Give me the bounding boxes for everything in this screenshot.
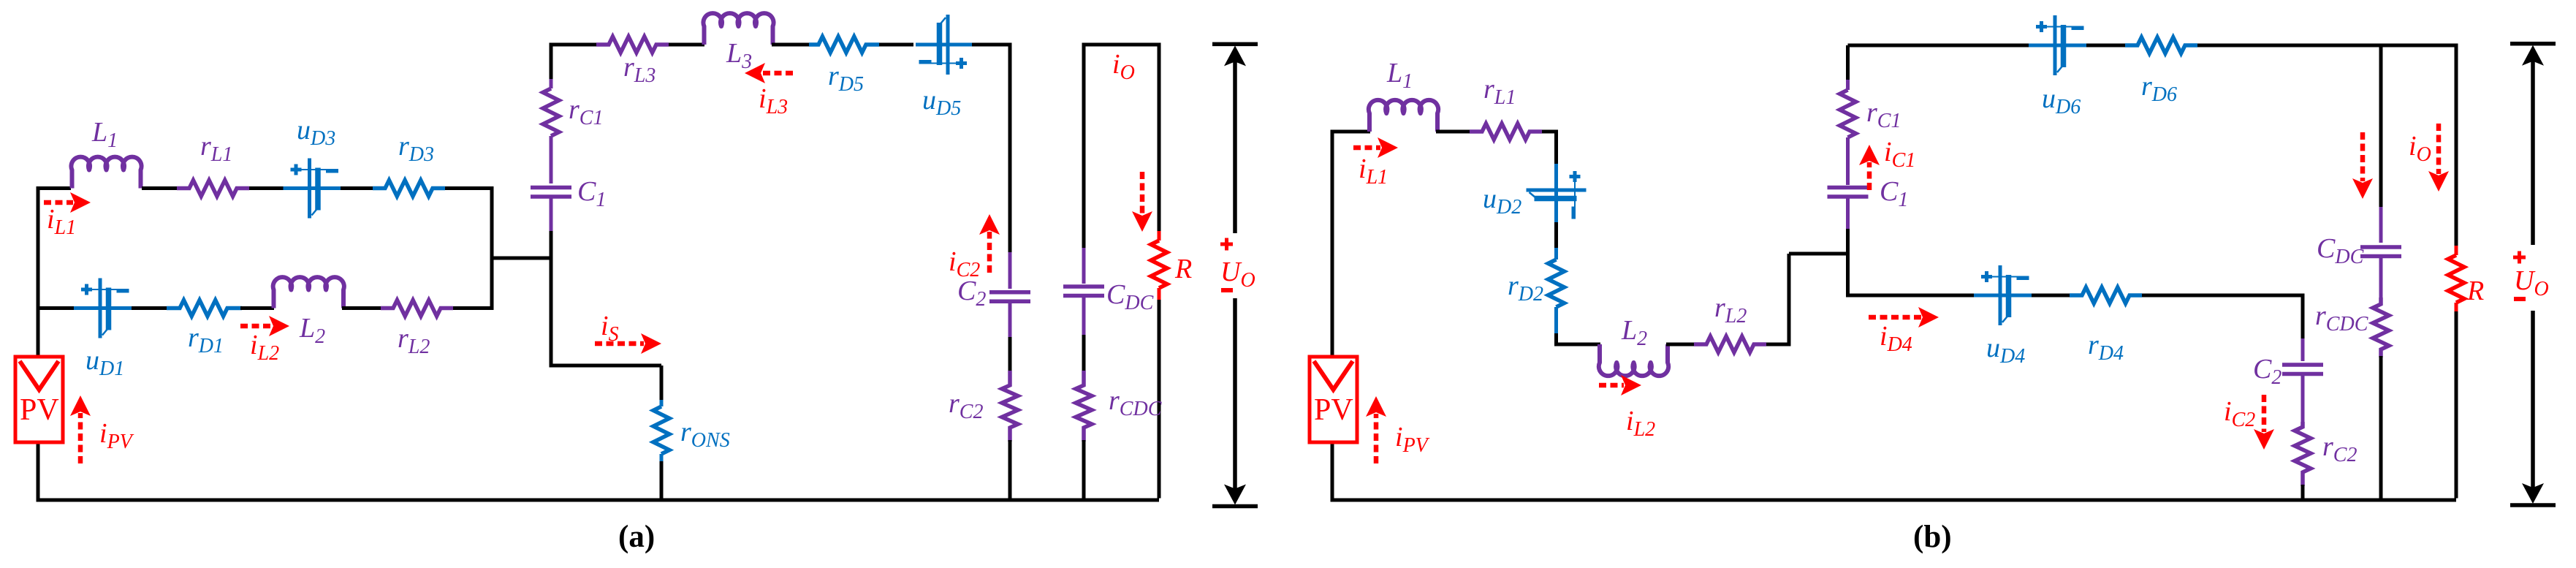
- lead: C2 bottom (purple): [1008, 303, 1012, 339]
- resistor rONS: [653, 406, 669, 454]
- inductor L2 coil (b) inverted: [1599, 344, 1668, 376]
- output voltage axis UO (a): [1212, 44, 1258, 506]
- label UO minus (a): [1221, 288, 1233, 292]
- wire: (a) switch corner down to rONS: [660, 366, 664, 401]
- wire: (a) CDC string top: [1082, 45, 1086, 249]
- wire: (b) rC2 to bottom rail: [2301, 485, 2305, 500]
- wire: (b) bottom rail: [1332, 499, 2456, 502]
- lead: R bottom (red): [1158, 288, 1161, 301]
- resistor R load (b): [2448, 255, 2464, 303]
- current arrow into CDC (b): [2360, 132, 2366, 181]
- diode-source uD6: [2029, 15, 2087, 75]
- wire: (b) rD2 corner to L2: [1557, 333, 1601, 344]
- diode-source uD1: [74, 279, 132, 338]
- current arrow iO (b): [2436, 124, 2442, 174]
- wire: (a) C1 to switch corner: [551, 231, 661, 366]
- capacitor CDC: [1063, 287, 1104, 296]
- resistor rD6: [2125, 37, 2197, 53]
- wire: (a) input-loop right vertical: [490, 186, 494, 310]
- current arrow iC1 (b): [1867, 162, 1872, 190]
- wire: (a) uD3 to rD3: [341, 186, 373, 190]
- resistor rD4: [2070, 287, 2142, 303]
- resistor rD3: [373, 181, 445, 197]
- wire: (a) rL2 to input-loop right vertical: [453, 306, 492, 310]
- inductor L3 coil: [703, 13, 773, 45]
- capacitor C2 (b): [2282, 365, 2323, 374]
- wire: (b) left vertical top corner to PV: [1331, 130, 1334, 357]
- wire: (a) rONS to bottom rail: [660, 461, 664, 500]
- resistor rC1: [543, 88, 559, 136]
- wire: (a) R string top: [1158, 45, 1161, 232]
- wire: (a) rL1 to uD3: [249, 186, 284, 190]
- label UO plus (a): [1220, 238, 1233, 251]
- inductor L1 coil: [71, 157, 141, 189]
- wire: (a) bottom rail: [38, 499, 1159, 502]
- svg-text:PV: PV: [20, 393, 59, 427]
- lead: C2 to rC2 (b): [2301, 376, 2305, 423]
- PV source (a): [15, 357, 63, 442]
- lead: CDC bottom (purple): [1082, 298, 1086, 337]
- wire: (a) left vertical PV to bottom corner: [38, 442, 82, 500]
- svg-text:PV: PV: [1314, 393, 1353, 427]
- diode-source uD4: [1974, 265, 2032, 325]
- wire: (b) uD4 to rD4: [2032, 294, 2070, 298]
- lead: C2 top (purple): [1008, 252, 1012, 289]
- lead: rONS top (blue): [660, 400, 664, 406]
- resistor rC1 (b): [1840, 90, 1856, 137]
- wire: (a) C2 to rC2: [1008, 337, 1012, 372]
- lead: CDC top (purple): [1082, 248, 1086, 284]
- wire: (b) rCDC to bottom rail: [2379, 356, 2383, 500]
- wire: (a) top-left corner down to rC1: [550, 45, 553, 80]
- current arrow iD4: [1869, 315, 1921, 320]
- inductor L1 coil (b): [1369, 100, 1438, 132]
- label UO minus (b): [2514, 297, 2526, 301]
- capacitor CDC (b): [2360, 247, 2401, 257]
- wire: (b) top rail: [1848, 44, 2030, 48]
- wire: (a) uD1 to rD1: [132, 306, 167, 310]
- svg-text:(a): (a): [618, 520, 655, 554]
- current arrow iPV (a): [78, 413, 83, 463]
- resistor rD5: [809, 37, 879, 53]
- label UO plus (b): [2513, 251, 2526, 264]
- wire: (b) top rail corner down to rC1: [1846, 45, 1850, 81]
- current arrow iO (a): [1140, 172, 1145, 214]
- current arrow iS: [595, 341, 644, 347]
- lead: rONS bottom (blue): [660, 454, 664, 463]
- lead: C1 bottom (purple): [550, 198, 553, 232]
- lead: rD2 bottom (blue): [1554, 307, 1558, 335]
- current arrow iC2 (b): [2262, 395, 2267, 432]
- current arrow iL1: [44, 200, 73, 205]
- wire: (b) L2 to rL2: [1666, 343, 1695, 347]
- lead: C2 top (b): [2301, 338, 2305, 361]
- wire: (a) CDC-loop top rail: [1084, 45, 1159, 46]
- inductor L2 coil: [273, 277, 344, 308]
- wire: (b) rL2 corner up: [1766, 254, 1789, 344]
- wire: (a) uD5 to C2 corner: [972, 45, 1010, 254]
- wire: (a) left vertical to uD1: [38, 306, 75, 310]
- resistor rCDC: [1076, 371, 1092, 442]
- wire: (b) rL1 to corner, down to uD2: [1542, 132, 1557, 166]
- PV source (b): [1310, 357, 1357, 442]
- resistor rL2: [381, 300, 453, 317]
- wire: (b) junction horizontal: [1789, 252, 1848, 256]
- diode-source uD5: [916, 15, 974, 75]
- current arrow iL2: [240, 324, 272, 329]
- wire: (b) R string top: [2455, 44, 2458, 248]
- wire: (b) left vertical to L1: [1332, 130, 1370, 134]
- resistor rC2 (b): [2295, 422, 2311, 486]
- lead: C1 bottom (b): [1846, 198, 1850, 230]
- wire: (a) rL3 to L3: [669, 43, 704, 47]
- resistor rCDC (b): [2373, 298, 2389, 357]
- wire: (b) CDC string top: [2379, 45, 2383, 208]
- wire: (a) CDC to rCDC: [1082, 335, 1086, 372]
- current arrow iC2 (a): [987, 232, 992, 273]
- wire: (b) L1 to rL1: [1436, 130, 1470, 134]
- resistor rD1: [167, 300, 242, 317]
- lead: rD2 top (blue): [1554, 248, 1558, 260]
- diode-source uD2: [1527, 164, 1587, 222]
- lead: R bottom (b): [2455, 303, 2458, 313]
- capacitor C1: [531, 188, 571, 197]
- wire: (b) rD4 to C2 corner: [2142, 295, 2303, 340]
- lead: CDC top (b): [2379, 207, 2383, 243]
- wire: (a) R to bottom rail: [1158, 300, 1161, 499]
- current arrow iPV (b): [1374, 414, 1379, 463]
- capacitor C1 (b): [1828, 188, 1869, 197]
- lead: rC1 to C1 (purple): [550, 136, 553, 183]
- lead: rC1 top (purple): [550, 79, 553, 88]
- svg-text:(b): (b): [1913, 520, 1952, 554]
- wire: (b) PV to bottom corner: [1332, 442, 1376, 500]
- lead: CDC bottom (b): [2379, 258, 2383, 299]
- lead: rC1 top (b): [1846, 80, 1850, 90]
- resistor rC2: [1002, 371, 1018, 442]
- resistor rL1 (b): [1470, 124, 1542, 140]
- wire: (a) top rail corner to rL3: [551, 45, 596, 46]
- diode-source uD3: [284, 159, 342, 219]
- resistor rL2 (b): [1694, 336, 1766, 352]
- wire: (b) R to bottom rail: [2455, 311, 2458, 499]
- wire: (a) rC2 to bottom rail: [1008, 440, 1012, 500]
- wire: (a) L1 to rL1: [142, 186, 178, 190]
- wire: (a) junction to C1 string: [492, 257, 551, 260]
- resistor R load (a): [1151, 241, 1167, 288]
- current arrow iL1 (b): [1353, 145, 1380, 151]
- wire: (a) L2 to rL2: [342, 306, 381, 310]
- resistor rL3: [596, 37, 669, 53]
- lead: R top (red): [1158, 231, 1161, 241]
- wire: (b) rD6 to right corner: [2197, 44, 2456, 48]
- resistor rL1: [177, 181, 249, 197]
- svg-text:R: R: [1174, 254, 1192, 284]
- wire: (b) uD2 to rD2: [1554, 222, 1558, 249]
- wire: (a) L3 to rD5: [772, 43, 809, 47]
- capacitor C2: [989, 292, 1030, 302]
- wire: (b) C1 string to uD4 corner: [1848, 229, 1975, 295]
- wire: (a) left vertical from L1 branch to PV: [38, 189, 71, 357]
- wire: (a) rD3 to input-loop right vertical: [445, 186, 492, 190]
- lead: rC1 to C1 (b): [1846, 137, 1850, 185]
- svg-text:R: R: [2466, 276, 2484, 306]
- lead: R top (b): [2455, 246, 2458, 255]
- current arrow iL2 (b): [1599, 383, 1624, 388]
- wire: (a) rCDC to bottom rail: [1082, 440, 1086, 500]
- resistor rD2: [1549, 260, 1565, 307]
- current arrow iL3: [762, 71, 793, 76]
- output voltage axis UO (b): [2510, 44, 2556, 505]
- wire: (a) rD5 to uD5: [879, 43, 913, 47]
- wire: (b) uD6 to rD6: [2086, 44, 2126, 48]
- wire: (a) rD1 to L2: [240, 306, 274, 310]
